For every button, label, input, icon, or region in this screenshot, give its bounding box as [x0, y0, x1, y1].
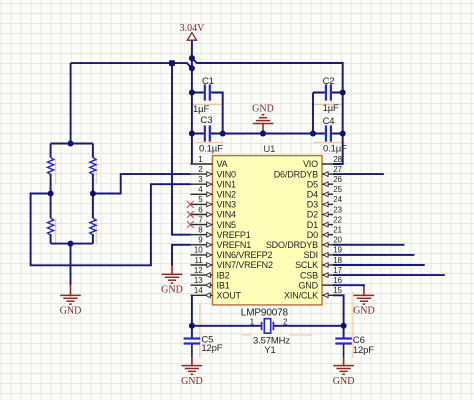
svg-text:SDO/DRDYB: SDO/DRDYB [266, 240, 318, 250]
svg-text:27: 27 [333, 165, 342, 174]
svg-text:VA: VA [217, 159, 228, 169]
svg-text:C2: C2 [323, 76, 335, 87]
svg-text:14: 14 [194, 286, 203, 295]
svg-text:23: 23 [333, 205, 342, 214]
svg-text:VIN3: VIN3 [217, 200, 237, 210]
svg-text:C3: C3 [201, 115, 213, 126]
svg-text:GND: GND [161, 285, 183, 296]
svg-text:D4: D4 [307, 190, 318, 200]
svg-text:12pF: 12pF [201, 343, 222, 354]
svg-text:8: 8 [198, 226, 203, 235]
svg-text:1µF: 1µF [323, 103, 339, 114]
svg-text:20: 20 [333, 236, 342, 245]
svg-text:D2: D2 [307, 210, 318, 220]
svg-text:4: 4 [198, 185, 203, 194]
svg-text:D0: D0 [307, 230, 318, 240]
svg-text:1: 1 [250, 317, 255, 326]
svg-text:C1: C1 [202, 76, 214, 87]
svg-text:CSB: CSB [300, 270, 318, 280]
svg-text:IB2: IB2 [217, 270, 230, 280]
svg-text:12: 12 [194, 266, 203, 275]
svg-text:5: 5 [198, 195, 203, 204]
svg-text:VIN5: VIN5 [217, 220, 237, 230]
svg-text:GND: GND [252, 103, 274, 114]
svg-text:VIN0: VIN0 [217, 169, 237, 179]
svg-text:VIN7/VREFN2: VIN7/VREFN2 [217, 260, 274, 270]
svg-text:D5: D5 [307, 179, 318, 189]
svg-text:U1: U1 [263, 144, 275, 155]
svg-text:3.04V: 3.04V [180, 23, 206, 34]
svg-text:0.1µF: 0.1µF [323, 144, 347, 155]
svg-text:22: 22 [333, 215, 342, 224]
svg-text:0.1µF: 0.1µF [199, 144, 223, 155]
svg-text:10: 10 [194, 246, 203, 255]
svg-text:IB1: IB1 [217, 280, 230, 290]
svg-text:12pF: 12pF [353, 345, 374, 356]
svg-text:GND: GND [353, 306, 375, 317]
svg-text:SCLK: SCLK [295, 260, 318, 270]
svg-text:1: 1 [198, 155, 203, 164]
svg-text:21: 21 [333, 226, 342, 235]
svg-text:D6/DRDYB: D6/DRDYB [274, 169, 318, 179]
svg-text:D1: D1 [307, 220, 318, 230]
svg-text:11: 11 [194, 256, 203, 265]
svg-text:Y1: Y1 [264, 345, 275, 356]
svg-text:26: 26 [333, 175, 342, 184]
svg-text:13: 13 [194, 276, 203, 285]
svg-text:XIN/CLK: XIN/CLK [284, 291, 318, 301]
svg-text:VREFN1: VREFN1 [217, 240, 252, 250]
svg-text:2: 2 [198, 165, 203, 174]
svg-text:GND: GND [181, 376, 203, 387]
svg-text:25: 25 [333, 185, 342, 194]
svg-text:C4: C4 [323, 116, 335, 127]
svg-text:2: 2 [283, 317, 288, 326]
svg-text:18: 18 [333, 256, 342, 265]
svg-text:9: 9 [198, 236, 203, 245]
svg-text:VIN2: VIN2 [217, 190, 237, 200]
svg-text:VIN1: VIN1 [217, 179, 237, 189]
svg-text:GND: GND [333, 376, 355, 387]
svg-text:XOUT: XOUT [217, 291, 242, 301]
svg-text:7: 7 [198, 215, 203, 224]
svg-text:SDI: SDI [303, 250, 318, 260]
svg-text:D3: D3 [307, 200, 318, 210]
svg-text:VREFP1: VREFP1 [217, 230, 251, 240]
svg-text:24: 24 [333, 195, 342, 204]
svg-text:16: 16 [333, 276, 342, 285]
svg-text:GND: GND [60, 306, 82, 317]
svg-text:17: 17 [333, 266, 342, 275]
svg-text:1µF: 1µF [193, 104, 209, 115]
svg-text:VIO: VIO [303, 159, 318, 169]
svg-text:LMP90078: LMP90078 [241, 307, 289, 318]
svg-text:VIN4: VIN4 [217, 210, 237, 220]
svg-text:6: 6 [198, 205, 203, 214]
svg-text:19: 19 [333, 246, 342, 255]
svg-text:15: 15 [333, 286, 342, 295]
svg-text:GND: GND [298, 280, 318, 290]
svg-text:VIN6/VREFP2: VIN6/VREFP2 [217, 250, 273, 260]
svg-text:3: 3 [198, 175, 203, 184]
svg-text:28: 28 [333, 155, 342, 164]
